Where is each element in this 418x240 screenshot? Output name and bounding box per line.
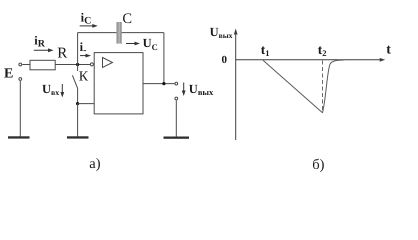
capacitor C plates bbox=[116, 22, 121, 44]
junction dot B bbox=[76, 102, 79, 105]
switch K blade bbox=[72, 75, 77, 89]
wire blade to lower junction bbox=[77, 89, 79, 104]
op-amp U1 body bbox=[94, 53, 143, 114]
source terminal E bottom bbox=[19, 78, 22, 81]
switch K stub bbox=[77, 65, 79, 72]
svg-text:t: t bbox=[386, 43, 391, 58]
wire junction to opamp lower input bbox=[78, 103, 95, 105]
output terminal top bbox=[175, 82, 178, 85]
current arrow iR bbox=[34, 49, 50, 51]
arrow Uвх down bbox=[61, 84, 63, 94]
ground right bbox=[164, 137, 190, 139]
svg-text:б): б) bbox=[312, 157, 324, 173]
op-amp inverting input circle bbox=[90, 63, 93, 66]
wire junction down to ground bbox=[77, 104, 79, 137]
ground middle bbox=[67, 136, 89, 138]
svg-text:R: R bbox=[57, 45, 67, 61]
svg-text:C: C bbox=[122, 11, 132, 27]
arrow Uвых down bbox=[183, 83, 185, 93]
recovery segment of output curve bbox=[323, 60, 345, 113]
current arrow iC bbox=[80, 25, 95, 27]
ground left bbox=[8, 136, 30, 138]
arrow UC bbox=[126, 43, 137, 45]
wire E to resistor bbox=[22, 64, 29, 66]
dashed line at t2 bbox=[322, 61, 324, 113]
ramp segment of output curve bbox=[263, 60, 323, 113]
graph axis horizontal bbox=[236, 59, 382, 61]
resistor R bbox=[30, 60, 55, 70]
svg-text:К: К bbox=[79, 69, 89, 84]
output terminal bottom bbox=[175, 97, 178, 100]
wire output terminal to ground bbox=[175, 100, 177, 137]
graph axis vertical bbox=[235, 32, 237, 141]
svg-text:а): а) bbox=[89, 156, 100, 172]
svg-text:E: E bbox=[4, 67, 13, 82]
svg-text:0: 0 bbox=[222, 54, 228, 66]
wire node up to capacitor branch bbox=[77, 33, 79, 65]
wire capacitor branch down to output bbox=[163, 33, 165, 84]
wire E bottom terminal to ground bbox=[19, 81, 21, 137]
source terminal E top bbox=[19, 63, 22, 66]
op-amp triangle symbol bbox=[103, 58, 113, 68]
wire resistor to opamp input bbox=[55, 64, 90, 66]
current arrow i- bbox=[80, 55, 88, 57]
output node dot bbox=[162, 82, 165, 85]
node A junction dot bbox=[76, 63, 79, 66]
wire capacitor branch top bbox=[78, 32, 164, 34]
output wire bbox=[143, 83, 174, 85]
